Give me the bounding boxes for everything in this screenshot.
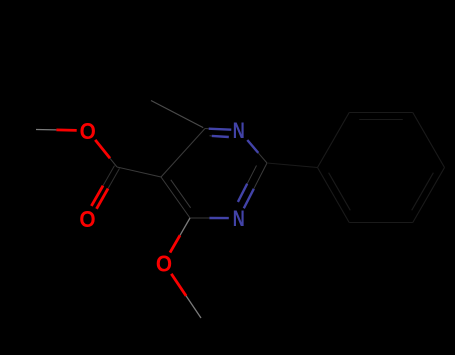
svg-text:O: O — [79, 206, 95, 232]
svg-text:O: O — [80, 118, 96, 144]
svg-text:N: N — [233, 118, 245, 143]
svg-text:O: O — [156, 251, 172, 277]
svg-text:N: N — [233, 206, 245, 231]
